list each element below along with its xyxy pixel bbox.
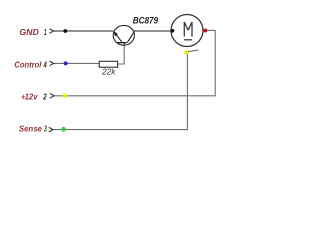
svg-text:12v: 12v	[25, 92, 38, 102]
svg-text:1: 1	[44, 27, 47, 37]
svg-text:Sense: Sense	[19, 124, 42, 134]
svg-text:2: 2	[42, 92, 47, 102]
svg-text:BC879: BC879	[133, 15, 159, 26]
svg-text:3: 3	[44, 124, 47, 134]
svg-text:Control: Control	[14, 60, 42, 70]
svg-text:GND: GND	[19, 27, 38, 37]
svg-text:4: 4	[43, 60, 47, 70]
svg-text:22k: 22k	[101, 68, 117, 77]
